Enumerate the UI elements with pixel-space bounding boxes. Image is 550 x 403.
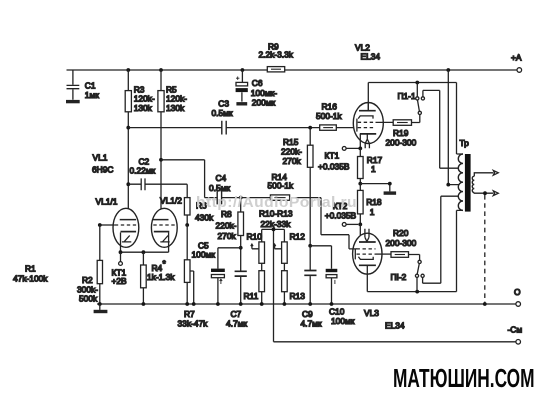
svg-text:1k-1.3k: 1k-1.3k	[147, 272, 175, 282]
svg-text:R13: R13	[290, 291, 306, 301]
svg-text:C9: C9	[302, 309, 313, 319]
wire C3 line (VL1/1 anode to VL2 grid)	[128, 126, 319, 130]
svg-text:47k-100k: 47k-100k	[13, 273, 48, 283]
node R17/R18 junction with ground	[358, 182, 391, 192]
node VL1/2 grid	[185, 223, 189, 227]
terminal speaker output top	[493, 170, 498, 175]
capacitor C5 electrolytic	[192, 241, 241, 304]
resistor R14	[268, 172, 294, 200]
tube VL2 EL34	[353, 43, 383, 149]
wire ground bus / O line	[97, 302, 516, 306]
capacitor C1	[67, 70, 100, 100]
svg-text:33k-47k: 33k-47k	[178, 319, 209, 329]
ground below C6	[236, 102, 247, 105]
wire KT2 node to VL3 cathode	[359, 224, 361, 242]
resistor R2	[77, 225, 103, 304]
resistor R12 trimmer	[274, 229, 306, 270]
terminal KT1 (VL2 cathode)	[318, 147, 350, 172]
svg-text:C10: C10	[329, 306, 345, 316]
svg-text:VL3: VL3	[364, 308, 379, 318]
wire bias bar to -Cm	[262, 228, 285, 342]
resistor R9	[259, 41, 294, 72]
terminal +A	[511, 53, 522, 73]
resistor R7 trimmer	[178, 225, 209, 329]
tube VL3 EL34	[353, 229, 405, 331]
svg-text:100мк-: 100мк-	[251, 88, 277, 98]
svg-text:270k: 270k	[218, 231, 237, 241]
svg-text:430k: 430k	[195, 212, 214, 222]
svg-text:C6: C6	[252, 78, 263, 88]
wire +A rail	[67, 68, 518, 72]
terminal KT1 (VL1 cathode)	[112, 252, 128, 286]
terminal speaker output bottom	[493, 191, 498, 196]
wire R14 to VL3 grid	[290, 198, 357, 249]
wire ultralinear tap to P1-2	[441, 196, 459, 283]
svg-text:EL34: EL34	[385, 321, 405, 331]
transformer Tr primary winding	[458, 138, 469, 210]
svg-text:R18: R18	[366, 197, 382, 207]
svg-text:R1: R1	[25, 263, 36, 273]
transformer Tr secondary winding	[472, 173, 493, 195]
wire VL1 cathodes	[119, 250, 169, 254]
tube VL1 label	[92, 153, 113, 175]
svg-text:R10: R10	[247, 231, 263, 241]
resistor R20	[376, 228, 417, 257]
capacitor C10 electrolytic	[310, 246, 355, 326]
resistor R8	[216, 198, 244, 272]
svg-text:+0.035В: +0.035В	[318, 162, 350, 172]
capacitor C9	[301, 244, 322, 329]
switch P1-2	[391, 255, 441, 292]
wire +A to transformer center tap	[446, 70, 459, 187]
transformer Tr core	[465, 154, 471, 212]
svg-text:КТ1: КТ1	[325, 151, 340, 161]
svg-text:+A: +A	[511, 53, 522, 63]
svg-text:2.2k-3.3k: 2.2k-3.3k	[259, 50, 294, 60]
svg-text:C7: C7	[231, 309, 242, 319]
svg-text:Тр: Тр	[460, 138, 470, 148]
svg-text:220k-: 220k-	[216, 220, 237, 230]
resistor R17	[358, 148, 383, 183]
svg-text:1: 1	[371, 164, 376, 174]
svg-text:-Cм: -Cм	[508, 325, 523, 335]
svg-text:C3: C3	[218, 99, 229, 109]
tube VL1/1 triode	[96, 197, 139, 253]
svg-text:100мк: 100мк	[331, 316, 355, 326]
svg-text:4.7мк: 4.7мк	[226, 319, 247, 329]
ground at R2	[94, 304, 108, 312]
svg-text:R7: R7	[184, 309, 195, 319]
svg-text:100мк: 100мк	[192, 250, 216, 260]
label R1 input	[13, 263, 48, 283]
svg-text:R11: R11	[244, 291, 259, 301]
resistor R16	[316, 102, 342, 131]
svg-text:0.22мк: 0.22мк	[130, 166, 156, 176]
svg-text:1мк: 1мк	[85, 90, 99, 100]
svg-text:О: О	[514, 287, 521, 297]
wire VL1/2 anode column	[159, 112, 163, 220]
svg-text:*: *	[163, 259, 167, 269]
resistor R13	[282, 271, 306, 304]
wire VL2 cathode lead	[346, 134, 362, 150]
label R10-R13 values	[259, 209, 293, 230]
svg-text:1: 1	[370, 207, 375, 217]
wire -Cm line	[274, 341, 516, 343]
resistor R11	[244, 271, 265, 304]
svg-text:+0.035В: +0.035В	[325, 210, 357, 220]
svg-text:130k: 130k	[134, 103, 153, 113]
svg-text:+2В: +2В	[112, 276, 128, 286]
capacitor C2	[128, 156, 187, 190]
capacitor C7	[226, 271, 247, 328]
resistor R3	[125, 70, 155, 113]
svg-text:200-300: 200-300	[386, 238, 417, 248]
node R8/C5/C7	[239, 246, 243, 250]
capacitor C4	[209, 173, 230, 204]
ground below C1	[66, 100, 80, 103]
wire VL3 anode to transformer	[367, 210, 463, 293]
wire VL2 anode to transformer	[368, 81, 463, 154]
svg-text:200-300: 200-300	[386, 138, 417, 148]
svg-text:270k: 270k	[283, 156, 302, 166]
svg-text:130k: 130k	[166, 103, 185, 113]
resistor R18	[358, 184, 382, 225]
wire VL1/1 grid to R2	[98, 223, 115, 227]
svg-text:VL1: VL1	[93, 153, 108, 163]
svg-text:R12: R12	[290, 231, 306, 241]
svg-text:500-1k: 500-1k	[268, 181, 294, 191]
resistor R4	[141, 252, 176, 304]
tube VL1/2 triode	[151, 195, 182, 252]
resistor R15	[281, 128, 313, 246]
ground at R17/R18 node	[384, 191, 397, 194]
svg-text:C4: C4	[216, 173, 227, 183]
resistor R10 trimmer	[247, 229, 265, 270]
svg-text:R20: R20	[393, 228, 409, 238]
svg-text:ПI-2: ПI-2	[391, 272, 407, 282]
wire R16 to VL2 grid	[336, 127, 357, 129]
svg-text:0.5мк: 0.5мк	[212, 108, 233, 118]
svg-text:EL34: EL34	[361, 51, 381, 61]
wire VL1/1 anode column	[126, 112, 130, 220]
terminal -Cm	[508, 325, 523, 345]
terminal KT2 (VL3 cathode)	[325, 201, 362, 227]
terminal O	[514, 287, 521, 306]
wire VL1/2 anode to C4	[161, 160, 217, 198]
capacitor C3	[212, 99, 233, 135]
capacitor C6 electrolytic	[236, 70, 278, 107]
resistor R6	[184, 184, 214, 225]
wire C4 to R14	[222, 196, 271, 200]
svg-text:0.5мк: 0.5мк	[209, 183, 230, 193]
svg-text:VL1/2: VL1/2	[160, 195, 182, 205]
svg-text:http://AudioPortal.ru: http://AudioPortal.ru	[196, 194, 357, 211]
svg-text:500k: 500k	[79, 294, 98, 304]
svg-text:500-1k: 500-1k	[316, 111, 342, 121]
resistor R19	[376, 120, 417, 148]
svg-text:6Н9С: 6Н9С	[92, 164, 113, 174]
svg-text:VL1/1: VL1/1	[96, 197, 118, 207]
wire dashed feedback line	[484, 195, 486, 304]
svg-text:22k-33k: 22k-33k	[261, 219, 292, 229]
svg-text:200мк: 200мк	[252, 97, 276, 107]
switch P1-1	[398, 83, 459, 169]
svg-text:П1-1: П1-1	[398, 91, 416, 101]
svg-text:МАТЮШИН.СОМ: МАТЮШИН.СОМ	[393, 363, 535, 393]
resistor R5	[158, 70, 187, 113]
svg-text:4.7мк: 4.7мк	[301, 319, 322, 329]
